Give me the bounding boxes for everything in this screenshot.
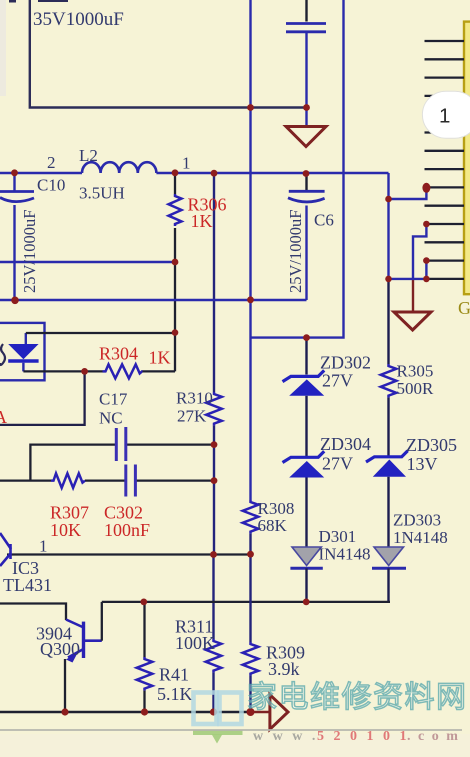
label R308 bbox=[258, 499, 295, 518]
resistor R306 bbox=[169, 173, 182, 262]
svg-text:5 2 0 1 0 1: 5 2 0 1 0 1 bbox=[317, 729, 410, 744]
wire cap to node bbox=[305, 33, 307, 108]
pin number 1 (TL431 ref) bbox=[39, 537, 48, 556]
zener ZD304 bbox=[283, 451, 325, 477]
svg-text:ZD303: ZD303 bbox=[393, 511, 441, 530]
resistor R309 bbox=[243, 642, 259, 712]
svg-text:Q300: Q300 bbox=[40, 639, 80, 659]
svg-text:13V: 13V bbox=[407, 454, 438, 474]
wire R41 chain x=144.5 bbox=[143, 602, 145, 657]
svg-text:27V: 27V bbox=[322, 454, 353, 474]
wire feedback L from R304 node down-left bbox=[0, 371, 85, 425]
svg-text:ZD304: ZD304 bbox=[320, 434, 371, 454]
opto partial glyph at left edge bbox=[0, 344, 5, 365]
wire long vertical net V1 (x=251) bbox=[249, 0, 251, 500]
wire R306 vertical continues to opto row bbox=[174, 262, 176, 371]
svg-text:5.1K: 5.1K bbox=[157, 684, 193, 704]
capacitor C15 partial top-left marks bbox=[9, 0, 68, 3]
svg-text:10K: 10K bbox=[50, 520, 81, 540]
optocoupler LED box bbox=[0, 323, 45, 380]
svg-text:D301: D301 bbox=[319, 527, 357, 546]
value 13V bbox=[407, 454, 438, 474]
label R307 bbox=[50, 503, 89, 523]
label C6 bbox=[314, 211, 334, 230]
wire rail stub to port arrow bbox=[251, 711, 270, 713]
value IN4148 (D301) bbox=[319, 545, 371, 564]
svg-text:R305: R305 bbox=[397, 362, 434, 381]
value 100K bbox=[175, 633, 215, 653]
zener chain hangs from dot (306.5,337.6) bbox=[305, 338, 307, 375]
value 25V/1000uF (C6) rotated bbox=[286, 210, 305, 293]
label C302 bbox=[104, 503, 143, 523]
wire vertical x=214 from main rail down bbox=[213, 173, 215, 392]
wire x=214 down through C17/C302 nodes to ref line bbox=[213, 445, 215, 555]
wire R307/C302 row y=480.6 bbox=[0, 479, 214, 481]
label R306 bbox=[188, 195, 227, 215]
label ZD304 bbox=[320, 434, 371, 454]
svg-text:TL431: TL431 bbox=[3, 575, 52, 595]
wire line A y=601.9 bbox=[102, 601, 390, 603]
resistor R41 bbox=[137, 657, 153, 712]
label R309 bbox=[266, 643, 305, 663]
svg-text:1K: 1K bbox=[149, 348, 171, 368]
label IC3 bbox=[12, 558, 39, 578]
zener ZD305 bbox=[366, 451, 408, 477]
value 25V/1000uF (C10) rotated bbox=[20, 210, 39, 293]
svg-text:1K: 1K bbox=[191, 211, 213, 231]
wire top-left corner to C15 rail bbox=[30, 0, 307, 108]
svg-text:ZD305: ZD305 bbox=[406, 435, 457, 455]
diode D301 bbox=[290, 547, 322, 568]
capacitor C6 bbox=[288, 174, 325, 301]
svg-text:w w w .: w w w . bbox=[253, 729, 318, 744]
svg-text:A: A bbox=[0, 407, 7, 427]
label ZD302 bbox=[320, 353, 371, 373]
wire vertical black above top capacitor bbox=[305, 0, 307, 22]
label R304 bbox=[99, 344, 138, 364]
value NC bbox=[99, 409, 123, 428]
connector label G (clipped) bbox=[458, 298, 470, 318]
svg-text:1: 1 bbox=[39, 537, 48, 556]
svg-text:27K: 27K bbox=[177, 407, 207, 426]
wire ZD305 chain x=388.5 down bbox=[387, 279, 389, 364]
value 1K (R304) bbox=[149, 348, 171, 368]
label R311 bbox=[175, 617, 213, 637]
wire ground stem lower bbox=[412, 280, 414, 312]
value label 35V1000uF bbox=[33, 9, 124, 30]
value 27V (ZD304) bbox=[322, 454, 353, 474]
svg-text:68K: 68K bbox=[258, 516, 288, 535]
svg-text:NC: NC bbox=[99, 409, 123, 428]
svg-text:100K: 100K bbox=[175, 633, 215, 653]
ground (top middle) bbox=[286, 127, 326, 147]
diode ZD303 bbox=[372, 547, 406, 568]
value 5.1K bbox=[157, 684, 193, 704]
value 1N4148 (ZD303) bbox=[393, 528, 448, 547]
value 3.9k bbox=[268, 659, 300, 679]
wire long vertical net V2 (x=343.5) with bend bbox=[251, 0, 344, 338]
capacitor C (top middle) bbox=[286, 24, 326, 32]
svg-text:3.9k: 3.9k bbox=[268, 659, 300, 679]
value 27V (ZD302) bbox=[322, 371, 353, 391]
wire opto cathode row y=371.4 bbox=[23, 370, 102, 372]
watermark text bbox=[247, 681, 468, 714]
resistor R304 bbox=[103, 364, 176, 378]
svg-text:R304: R304 bbox=[99, 344, 138, 364]
capacitor C17 (NC) bbox=[116, 427, 126, 461]
resistor R310 bbox=[206, 392, 222, 445]
port arrow (output) bbox=[270, 695, 288, 730]
wire ZD305 to ZD303 bbox=[387, 477, 389, 547]
wire D301 to line A bbox=[305, 568, 307, 602]
resistor R311 bbox=[206, 639, 222, 712]
svg-text:R41: R41 bbox=[159, 665, 189, 685]
svg-text:R310: R310 bbox=[176, 389, 213, 408]
wire line B y=603.5 (TL431 cathode to Q300 collector) bbox=[0, 604, 66, 621]
value 3.5UH bbox=[79, 184, 125, 203]
value 1K (R306) bbox=[191, 211, 213, 231]
label ZD305 bbox=[406, 435, 457, 455]
wire pin13 to pin14 node bbox=[389, 261, 427, 279]
svg-text:G: G bbox=[458, 298, 470, 318]
resistor R308 bbox=[243, 500, 259, 642]
footer gray line bbox=[0, 729, 462, 731]
svg-text:. c o m: . c o m bbox=[407, 729, 460, 744]
value 68K bbox=[258, 516, 288, 535]
connector J yellow body bbox=[464, 22, 470, 295]
value 500R bbox=[397, 379, 435, 398]
svg-text:C17: C17 bbox=[99, 390, 128, 409]
value 3904 (Q300) bbox=[36, 624, 72, 644]
svg-text:IN4148: IN4148 bbox=[319, 545, 371, 564]
label R310 bbox=[176, 389, 213, 408]
wire main output rail y=173 bbox=[0, 172, 389, 174]
footer url text bbox=[253, 729, 460, 744]
op-amp IC3 TL431 partial symbol bbox=[0, 533, 11, 566]
value TL431 bbox=[3, 575, 52, 595]
wire bus y=262 bbox=[0, 261, 175, 263]
label R305 bbox=[397, 362, 434, 381]
svg-text:27V: 27V bbox=[322, 371, 353, 391]
wire pin9 connect bbox=[389, 187, 427, 199]
wire pin11 to ground bbox=[413, 224, 426, 280]
svg-text:2: 2 bbox=[47, 153, 56, 172]
label Q300 bbox=[40, 639, 80, 659]
label L2 bbox=[79, 146, 98, 165]
resistor R305 bbox=[381, 364, 397, 456]
svg-text:35V1000uF: 35V1000uF bbox=[33, 9, 124, 30]
svg-text:1: 1 bbox=[182, 154, 191, 173]
annotation balloon 1 bbox=[422, 91, 470, 138]
value 27K bbox=[177, 407, 207, 426]
transistor Q300 bbox=[66, 620, 102, 663]
svg-text:500R: 500R bbox=[397, 379, 435, 398]
capacitor C10 bbox=[0, 173, 34, 301]
pin number 1 (L2) bbox=[182, 154, 191, 173]
label R41 bbox=[159, 665, 189, 685]
svg-text:ZD302: ZD302 bbox=[320, 353, 371, 373]
wire node to ground stub bbox=[305, 108, 307, 127]
label C10 bbox=[37, 176, 65, 195]
svg-text:25V/1000uF: 25V/1000uF bbox=[20, 210, 39, 293]
ground (connector) bbox=[394, 312, 431, 330]
pin number 2 bbox=[47, 153, 56, 172]
svg-text:100nF: 100nF bbox=[104, 520, 150, 540]
value 10K bbox=[50, 520, 81, 540]
wire ZD303 to line A corner bbox=[387, 568, 389, 602]
wire ZD302 to ZD304 bbox=[305, 396, 307, 457]
resistor R307 bbox=[51, 473, 85, 487]
wire TL431 ref line y=554.5 bbox=[7, 553, 249, 555]
wire ZD304 to D301 bbox=[305, 478, 307, 548]
svg-text:3.5UH: 3.5UH bbox=[79, 184, 125, 203]
wire Q300 base up to line A bbox=[101, 602, 103, 641]
svg-text:L2: L2 bbox=[79, 146, 98, 165]
svg-text:C10: C10 bbox=[37, 176, 65, 195]
wire bottom rail y=712 bbox=[0, 711, 251, 713]
svg-text:1N4148: 1N4148 bbox=[393, 528, 448, 547]
wire Q300 emitter down to rail bbox=[64, 659, 66, 712]
svg-text:家电维修资料网: 家电维修资料网 bbox=[247, 681, 468, 714]
wire C17 row with corner bbox=[30, 445, 214, 481]
svg-text:C6: C6 bbox=[314, 211, 334, 230]
capacitor C302 bbox=[126, 465, 136, 497]
optocoupler LED diode bbox=[8, 333, 38, 371]
wire x=213.5 ref line down to R311 bbox=[212, 555, 214, 640]
label C17 bbox=[99, 390, 128, 409]
wire opto anode row y=333 bbox=[26, 332, 175, 334]
label D301 bbox=[319, 527, 357, 546]
label ZD303 bbox=[393, 511, 441, 530]
svg-text:25V/1000uF: 25V/1000uF bbox=[286, 210, 305, 293]
value 100nF bbox=[104, 520, 150, 540]
wire bus y=300 bbox=[0, 299, 307, 301]
svg-text:1: 1 bbox=[439, 105, 450, 128]
watermark logo book bbox=[193, 693, 243, 744]
zener ZD302 bbox=[283, 370, 325, 395]
inductor L2 bbox=[82, 162, 156, 173]
net label A (clipped) bbox=[0, 407, 7, 427]
connector pins bbox=[425, 41, 465, 279]
wire right branch: corner from main rail down to pin node bbox=[387, 173, 389, 279]
